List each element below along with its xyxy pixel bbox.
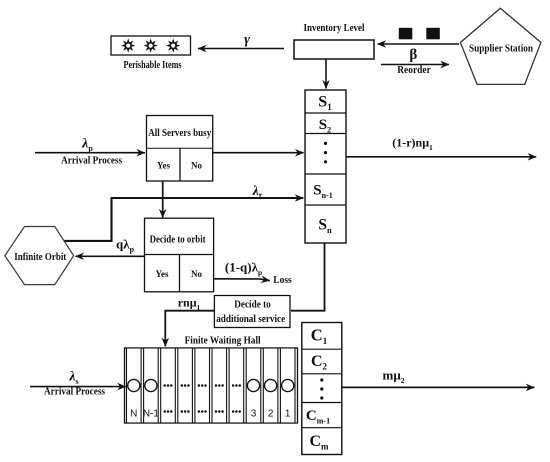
decide to orbit decision box bbox=[145, 218, 214, 292]
svg-text:Loss: Loss bbox=[273, 275, 292, 286]
supplier station pentagon bbox=[460, 8, 541, 84]
svg-text:N: N bbox=[130, 409, 137, 420]
replenishment item square 1 bbox=[399, 28, 413, 40]
waiting hall cell N-1 bbox=[143, 348, 160, 423]
waiting hall cell 3 bbox=[246, 348, 261, 423]
wire beta arrow supplier to inventory bbox=[378, 43, 460, 45]
wire mmu2 service completion bbox=[342, 386, 535, 388]
svg-text:γ: γ bbox=[244, 33, 250, 48]
svg-text:Arrival Process: Arrival Process bbox=[61, 156, 122, 167]
wire lambda_s arrival arrow bbox=[30, 386, 126, 388]
svg-text:Finite Waiting Hall: Finite Waiting Hall bbox=[185, 336, 261, 347]
waiting hall cell dots6 bbox=[229, 348, 244, 423]
wire q-lambda_p to infinite orbit bbox=[76, 255, 145, 257]
waiting hall cell 2 bbox=[263, 348, 278, 423]
wire busy box to servers bbox=[213, 152, 304, 154]
svg-text:Infinite Orbit: Infinite Orbit bbox=[14, 252, 67, 263]
svg-text:Decide to orbit: Decide to orbit bbox=[150, 235, 206, 246]
replenishment item square 2 bbox=[426, 28, 440, 40]
svg-text:Arrival Process: Arrival Process bbox=[44, 386, 105, 397]
waiting hall cell dots4 bbox=[195, 348, 210, 423]
infinite orbit hexagon bbox=[5, 227, 74, 285]
waiting hall cell 1 bbox=[280, 348, 295, 423]
wire gamma arrow bbox=[198, 48, 284, 50]
wire inventory to servers bbox=[325, 59, 327, 89]
wire Sn to decide additional service bbox=[291, 243, 325, 311]
waiting hall cell dots5 bbox=[212, 348, 227, 423]
wire lambda_r retrial path orbit to servers bbox=[64, 198, 303, 241]
svg-text:Reorder: Reorder bbox=[397, 64, 431, 76]
svg-text:3: 3 bbox=[251, 409, 257, 420]
svg-text:(1-q)λp: (1-q)λp bbox=[225, 260, 262, 278]
perishable items box bbox=[111, 36, 191, 55]
server stack C1..Cm bbox=[302, 323, 342, 455]
wire yes to decide-to-orbit bbox=[162, 181, 164, 218]
svg-text:Yes: Yes bbox=[156, 269, 169, 279]
wire (1-r)nmu1 service completion bbox=[346, 156, 536, 158]
waiting hall cell N bbox=[127, 348, 142, 423]
inventory level box bbox=[294, 40, 374, 59]
svg-text:Inventory Level: Inventory Level bbox=[304, 23, 365, 34]
decide to additional service box bbox=[214, 296, 290, 328]
wire reorder arrow bbox=[381, 64, 449, 66]
svg-text:Perishable Items: Perishable Items bbox=[124, 60, 182, 71]
svg-text:Supplier Station: Supplier Station bbox=[469, 44, 533, 55]
wire rnmu1 feedback to waiting hall bbox=[165, 311, 214, 347]
server stack S1..Sn bbox=[305, 90, 346, 243]
waiting hall cell dots3 bbox=[178, 348, 193, 423]
wire lambda_p arrival arrow bbox=[35, 152, 145, 154]
svg-text:β: β bbox=[409, 47, 417, 63]
svg-text:Decide to: Decide to bbox=[234, 300, 271, 311]
svg-text:No: No bbox=[191, 269, 202, 279]
waiting hall cell dots2 bbox=[161, 348, 176, 423]
svg-text:additional service: additional service bbox=[216, 314, 286, 325]
finite waiting hall outer box bbox=[125, 348, 298, 423]
svg-text:2: 2 bbox=[268, 409, 274, 420]
all servers busy decision box bbox=[147, 116, 213, 182]
svg-text:1: 1 bbox=[285, 409, 291, 420]
svg-text:Yes: Yes bbox=[157, 161, 170, 171]
svg-text:All Servers busy: All Servers busy bbox=[148, 128, 211, 139]
wire (1-q)lambda_p loss bbox=[214, 279, 270, 281]
svg-text:No: No bbox=[191, 161, 202, 171]
svg-text:N-1: N-1 bbox=[143, 409, 160, 420]
